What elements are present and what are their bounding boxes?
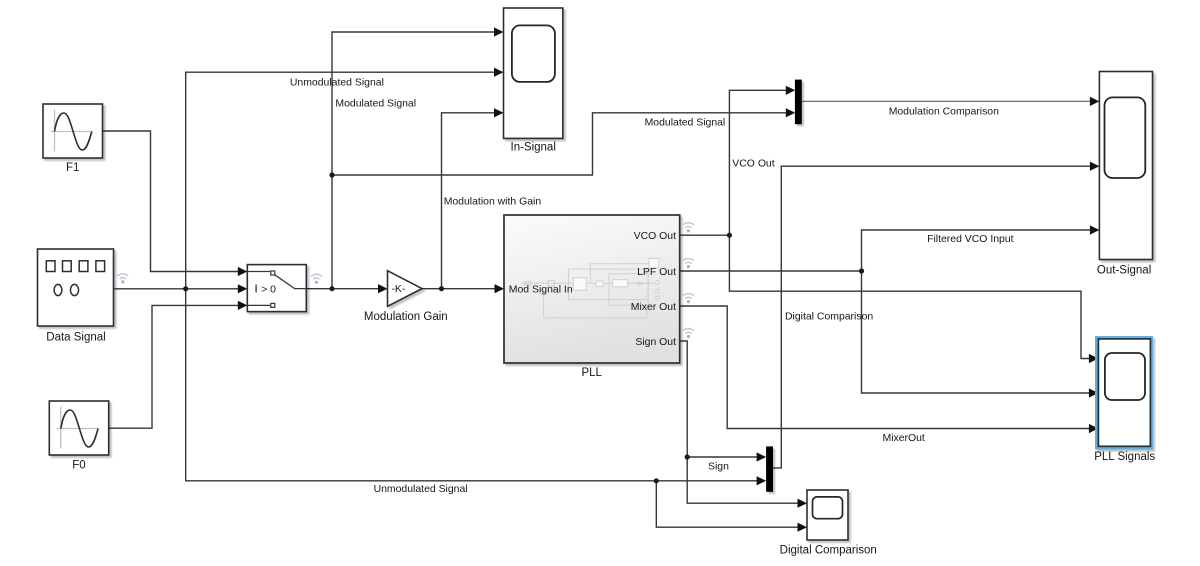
wire Filtered VCO Input to Out-Signal in3 xyxy=(862,230,1091,271)
wire Gain out to PLL Mod Signal In xyxy=(422,288,495,290)
wire Sign branch to Digital Comparison in1 xyxy=(687,457,798,503)
svg-text:-K-: -K- xyxy=(391,284,405,295)
arrow into In-Signal in2 xyxy=(494,68,504,77)
mux Mux2 xyxy=(766,446,773,491)
arrow into Digital Comparison in2 xyxy=(798,523,808,532)
mux Mux1 xyxy=(795,80,802,125)
wire VCO Out to node xyxy=(680,234,730,236)
svg-text:Data Signal: Data Signal xyxy=(46,332,105,344)
svg-text:VCO Out: VCO Out xyxy=(634,231,676,242)
switch block xyxy=(247,265,306,312)
svg-text:Unmodulated Signal: Unmodulated Signal xyxy=(290,77,384,88)
preview sketch inside PLL xyxy=(521,259,660,318)
arrow into Gain xyxy=(378,284,388,293)
scope Digital Comparison xyxy=(807,490,848,540)
arrow into Mux1 in1 xyxy=(786,86,796,95)
scope In-Signal xyxy=(504,8,563,138)
svg-text:VCO Out: VCO Out xyxy=(732,159,774,170)
wire LPF Out down to PLL Signals in2 xyxy=(862,271,1090,393)
badge logging Data Signal xyxy=(117,274,128,284)
wire Switch out to Gain xyxy=(306,288,379,290)
svg-text:Filtered VCO Input: Filtered VCO Input xyxy=(927,234,1014,245)
scope PLL Signals selected xyxy=(1095,336,1153,450)
badge logging Mixer Out xyxy=(683,294,694,304)
sine source F1 xyxy=(43,104,103,158)
svg-text:Mod Signal In: Mod Signal In xyxy=(509,284,573,295)
svg-text:Modulated Signal: Modulated Signal xyxy=(335,99,416,110)
arrow into Switch in3 xyxy=(238,301,248,310)
arrow into Out-Signal in3 xyxy=(1090,225,1100,234)
wire Modulated Signal up to In-Signal in1 xyxy=(332,32,495,289)
svg-text:PLL: PLL xyxy=(581,367,602,379)
wire VCO Out down to PLL Signals in1 xyxy=(729,235,1090,358)
badge logging Sign Out xyxy=(683,329,694,339)
wire LPF Out to node xyxy=(680,270,862,272)
arrow into Mux2 in2 xyxy=(757,476,767,485)
arrow into PLL Signals in3 xyxy=(1089,424,1099,433)
node Data Signal branch xyxy=(183,286,188,291)
arrow into Mux1 in2 xyxy=(786,108,796,117)
node Switch output branch xyxy=(329,286,334,291)
wire Mux1 out to Out-Signal in1 xyxy=(802,100,1091,102)
badge logging VCO Out xyxy=(683,223,694,233)
arrow into Mux2 in1 xyxy=(757,452,767,461)
node Gain output branch xyxy=(439,286,444,291)
arrow into In-Signal in3 xyxy=(494,108,504,117)
arrow into Digital Comparison in1 xyxy=(798,499,808,508)
wire Sign Out down to Mux2 in1 xyxy=(680,341,757,457)
wire Modulated Signal branch to Mux1 in2 xyxy=(332,113,787,175)
svg-text:In-Signal: In-Signal xyxy=(511,142,556,154)
scope Out-Signal xyxy=(1099,72,1152,260)
wire Mixer Out to PLL Signals in3 xyxy=(680,306,1090,429)
subsystem PLL xyxy=(504,215,680,363)
svg-text:MixerOut: MixerOut xyxy=(883,433,925,444)
gain Modulation Gain xyxy=(388,271,423,307)
source Data Signal xyxy=(38,249,114,326)
wire Data Signal to Switch in2 xyxy=(114,288,239,290)
svg-text:Out-Signal: Out-Signal xyxy=(1097,265,1151,277)
wire Unmodulated Signal branch to Digital Comparison in2 xyxy=(656,481,798,527)
svg-text:Sign: Sign xyxy=(708,462,729,473)
svg-text:LPF Out: LPF Out xyxy=(637,267,676,278)
badge logging Switch output xyxy=(311,274,322,284)
svg-text:Modulation Gain: Modulation Gain xyxy=(364,311,448,323)
wire Modulation with Gain branch to In-Signal in3 xyxy=(442,113,496,289)
arrow into PLL Signals in2 xyxy=(1089,388,1099,397)
wire Unmodulated Signal down branch to Mux2 in2 xyxy=(186,289,757,481)
node Modulated Signal branch xyxy=(329,172,334,177)
wire Mux2 out Digital Comparison net to Out-Signal in2 xyxy=(773,166,1091,468)
svg-text:> 0: > 0 xyxy=(261,284,276,295)
svg-text:Modulation Comparison: Modulation Comparison xyxy=(889,107,999,118)
wire F1 to Switch in1 xyxy=(103,131,239,272)
arrow into In-Signal in1 xyxy=(494,27,504,36)
sine source F0 xyxy=(49,401,108,455)
svg-text:Sign Out: Sign Out xyxy=(635,337,676,348)
svg-text:Modulation with Gain: Modulation with Gain xyxy=(444,197,542,208)
wire F0 to Switch in3 xyxy=(109,305,239,428)
node Unmodulated bottom branch xyxy=(654,478,659,483)
svg-text:Mixer Out: Mixer Out xyxy=(631,302,676,313)
svg-text:F1: F1 xyxy=(66,162,79,174)
node Sign branch xyxy=(685,454,690,459)
wire VCO Out up to Mux1 in1 xyxy=(729,90,786,235)
svg-text:Digital Comparison: Digital Comparison xyxy=(780,545,877,557)
arrow into Out-Signal in2 xyxy=(1090,162,1100,171)
svg-text:Unmodulated Signal: Unmodulated Signal xyxy=(374,484,468,495)
arrow into Switch in2 xyxy=(238,284,248,293)
node LPF Out branch xyxy=(859,268,864,273)
svg-text:Digital Comparison: Digital Comparison xyxy=(785,312,873,323)
svg-text:Modulated Signal: Modulated Signal xyxy=(645,117,726,128)
wire Unmodulated Signal up branch to In-Signal in2 xyxy=(186,72,495,289)
badge logging LPF Out xyxy=(683,259,694,269)
arrow into Switch in1 xyxy=(238,267,248,276)
arrow into PLL Signals in1 xyxy=(1089,354,1099,363)
svg-text:F0: F0 xyxy=(72,460,85,472)
arrow into Out-Signal in1 xyxy=(1090,97,1100,106)
svg-text:PLL Signals: PLL Signals xyxy=(1094,451,1155,463)
node VCO Out branch xyxy=(727,233,732,238)
arrow into PLL Mod Signal In xyxy=(495,284,505,293)
